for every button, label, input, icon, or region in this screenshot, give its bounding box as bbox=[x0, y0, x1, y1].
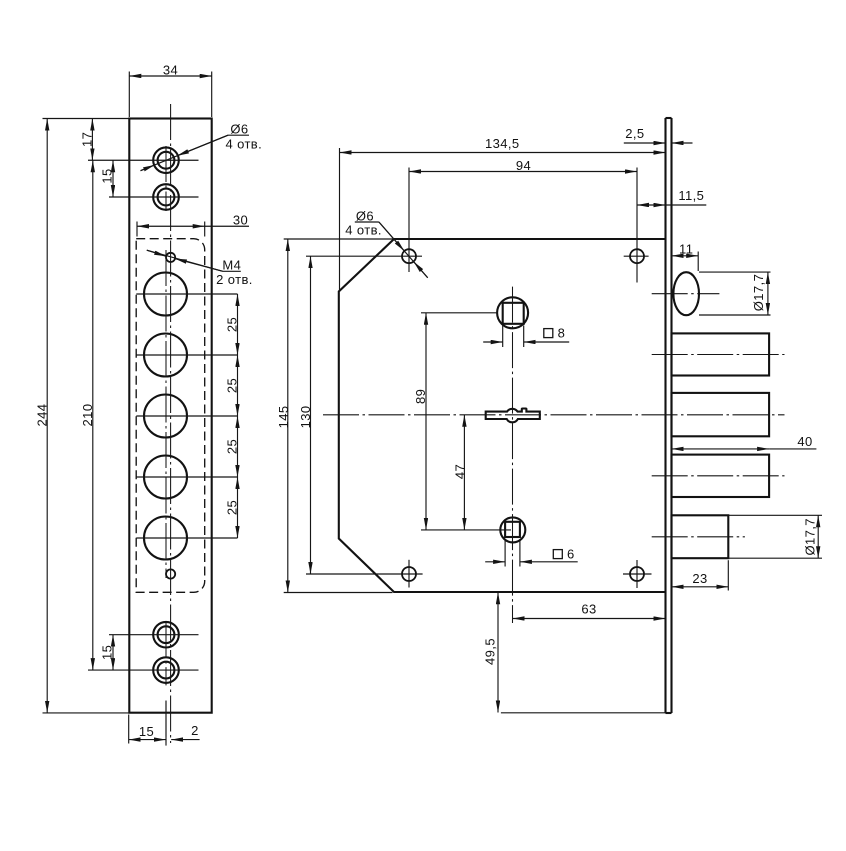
svg-text:47: 47 bbox=[452, 464, 467, 479]
svg-text:Ø17,7: Ø17,7 bbox=[803, 518, 818, 555]
svg-text:25: 25 bbox=[224, 500, 239, 515]
svg-text:40: 40 bbox=[797, 434, 812, 449]
svg-text:23: 23 bbox=[692, 571, 707, 586]
svg-text:89: 89 bbox=[413, 389, 428, 404]
svg-text:Ø6: Ø6 bbox=[356, 209, 374, 224]
svg-text:49,5: 49,5 bbox=[483, 638, 498, 665]
svg-text:11,5: 11,5 bbox=[678, 188, 704, 203]
svg-text:8: 8 bbox=[558, 326, 566, 341]
svg-text:17: 17 bbox=[80, 132, 95, 147]
svg-text:25: 25 bbox=[224, 439, 239, 454]
svg-text:15: 15 bbox=[139, 724, 154, 739]
svg-text:4 отв.: 4 отв. bbox=[345, 222, 382, 237]
svg-text:2,5: 2,5 bbox=[625, 126, 644, 141]
svg-text:4 отв.: 4 отв. bbox=[225, 136, 262, 151]
svg-text:25: 25 bbox=[224, 317, 239, 332]
svg-text:34: 34 bbox=[163, 62, 178, 77]
svg-text:30: 30 bbox=[233, 213, 248, 228]
svg-text:2: 2 bbox=[191, 723, 199, 738]
svg-text:11: 11 bbox=[679, 241, 693, 256]
svg-text:244: 244 bbox=[34, 404, 49, 427]
svg-text:25: 25 bbox=[224, 378, 239, 393]
svg-text:6: 6 bbox=[567, 547, 575, 562]
svg-text:94: 94 bbox=[516, 158, 531, 173]
svg-text:2 отв.: 2 отв. bbox=[216, 272, 253, 287]
svg-text:15: 15 bbox=[100, 645, 115, 660]
svg-text:Ø6: Ø6 bbox=[230, 122, 248, 137]
svg-text:130: 130 bbox=[298, 405, 313, 428]
svg-text:210: 210 bbox=[80, 404, 95, 427]
svg-text:Ø17,7: Ø17,7 bbox=[751, 274, 766, 311]
svg-text:145: 145 bbox=[276, 405, 291, 428]
svg-text:15: 15 bbox=[100, 168, 115, 183]
svg-text:134,5: 134,5 bbox=[485, 136, 520, 151]
svg-text:M4: M4 bbox=[222, 258, 241, 273]
svg-text:63: 63 bbox=[581, 602, 596, 617]
